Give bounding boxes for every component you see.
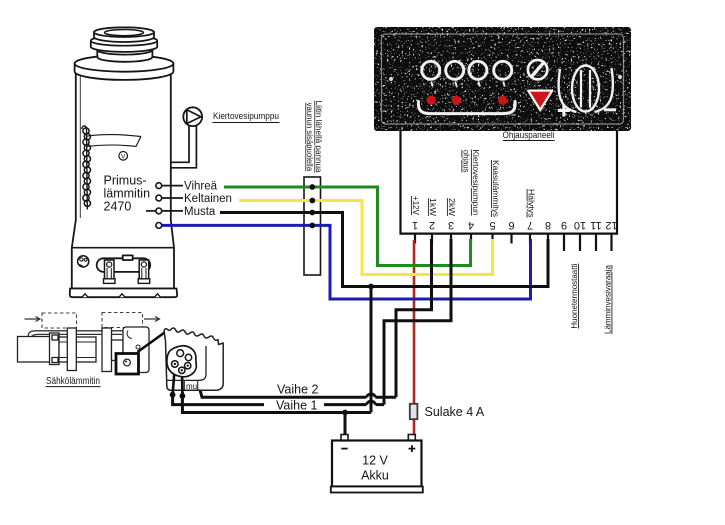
svg-text:Vaihe 2: Vaihe 2: [277, 383, 319, 397]
svg-text:mu: mu: [186, 382, 197, 391]
svg-text:Sulake 4 A: Sulake 4 A: [425, 405, 485, 419]
svg-text:1: 1: [412, 219, 418, 231]
svg-text:7: 7: [527, 219, 533, 231]
svg-text:2kW: 2kW: [447, 198, 457, 216]
svg-text:Akku: Akku: [361, 469, 389, 483]
svg-text:Hälytys: Hälytys: [527, 189, 537, 218]
svg-text:5: 5: [489, 219, 495, 231]
svg-text:Musta: Musta: [184, 206, 216, 218]
svg-text:9: 9: [561, 219, 567, 231]
svg-text:12 V: 12 V: [362, 454, 388, 468]
svg-text:V: V: [121, 153, 126, 160]
svg-text:Lämminvesivaraaja: Lämminvesivaraaja: [603, 265, 613, 334]
svg-text:11: 11: [590, 219, 601, 231]
svg-text:Liitin lähellä pannua: Liitin lähellä pannua: [314, 101, 323, 174]
svg-text:6: 6: [508, 219, 514, 231]
svg-text:lämmitin: lämmitin: [104, 187, 151, 201]
svg-text:Kaasulämmitys: Kaasulämmitys: [491, 160, 501, 217]
svg-text:2: 2: [429, 219, 435, 231]
svg-text:2470: 2470: [104, 200, 132, 214]
svg-text:Kiertovesipumpun: Kiertovesipumpun: [471, 150, 481, 216]
svg-text:Primus-: Primus-: [104, 174, 147, 188]
svg-text:Vaihe 1: Vaihe 1: [276, 399, 318, 413]
svg-text:10: 10: [574, 219, 586, 231]
svg-text:Keltainen: Keltainen: [184, 193, 232, 205]
svg-text:4: 4: [468, 219, 474, 231]
svg-text:Huonetermostaatti: Huonetermostaatti: [569, 263, 579, 328]
svg-text:Ohjauspaneeli: Ohjauspaneeli: [503, 130, 555, 141]
svg-text:Sähkölämmitin: Sähkölämmitin: [46, 376, 100, 387]
svg-text:8: 8: [545, 219, 551, 231]
svg-text:+12V: +12V: [411, 196, 421, 215]
svg-text:Vihreä: Vihreä: [184, 181, 218, 193]
svg-text:1kW: 1kW: [428, 198, 438, 216]
svg-text:Kiertovesipumppu: Kiertovesipumppu: [213, 111, 279, 122]
svg-text:vaunun sisäpuolella: vaunun sisäpuolella: [305, 103, 314, 172]
svg-text:3: 3: [448, 219, 454, 231]
svg-text:12: 12: [605, 219, 617, 231]
svg-text:ohjaus: ohjaus: [461, 150, 471, 173]
